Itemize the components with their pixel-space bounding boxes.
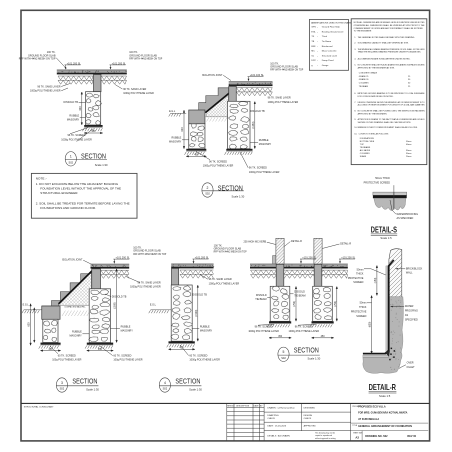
svg-text:1000g POLYTHENE LAYER: 1000g POLYTHENE LAYER (248, 330, 279, 333)
svg-text:OTHERWISE ALL DIMENSIONS SHALL: OTHERWISE ALL DIMENSIONS SHALL BE VERIFI… (354, 24, 426, 27)
svg-text:RUBBLE: RUBBLE (200, 325, 210, 328)
section 5 dims (295, 287, 297, 322)
section 3 compacted backfill text (59, 304, 90, 306)
section 1 bottom dimension (84, 132, 102, 134)
svg-text:(750): (750) (334, 301, 337, 307)
svg-text:FOR MRS. GUNASEKARA KOTHALAWAT: FOR MRS. GUNASEKARA KOTHALAWATA (358, 412, 407, 415)
svg-text:WALL: WALL (406, 272, 413, 275)
svg-text:GRADE 25: GRADE 25 (359, 75, 369, 78)
section 1 rubble masonry foundation (85, 92, 101, 125)
svg-text:THAN THE REQUIRED BEARING PRES: THAN THE REQUIRED BEARING PRESSURE UNDER… (358, 51, 422, 54)
svg-text:CHECK: CHECK (267, 418, 275, 420)
svg-text:Existing Ground Level: Existing Ground Level (322, 30, 344, 33)
section 2 right screed band (226, 149, 252, 152)
detail-r concrete speckles (390, 299, 401, 370)
svg-text:CONCRETE GRADE: CONCRETE GRADE (359, 71, 378, 74)
svg-text:1000g POLYTHENE LAYER: 1000g POLYTHENE LAYER (189, 359, 220, 362)
svg-text:APPROVED: APPROVED (304, 424, 317, 427)
svg-text:RFF: RFF (311, 46, 316, 48)
svg-text:96 TK. SCREED: 96 TK. SCREED (295, 326, 313, 329)
svg-text:1000g POLYTHENE LAYER: 1000g POLYTHENE LAYER (268, 101, 299, 104)
svg-text:TIE BEAM: TIE BEAM (359, 85, 368, 88)
svg-text:MC: MC (311, 51, 315, 53)
svg-text:RFF WITH 4#N2 MESH ON TOP: RFF WITH 4#N2 MESH ON TOP (19, 57, 56, 60)
section 3 fill hatch (62, 311, 90, 316)
title block frame (21, 402, 430, 404)
section 5 screed bands (269, 321, 291, 324)
svg-text:DETAIL-R: DETAIL-R (291, 240, 302, 243)
svg-text:DRAWING NO. S02: DRAWING NO. S02 (365, 435, 388, 438)
section 4 masonry (171, 285, 193, 341)
svg-text:THE GENERAL NOTES SHALL BE REA: THE GENERAL NOTES SHALL BE READ WITH THI… (358, 36, 416, 39)
svg-text:60 TK. SCREED: 60 TK. SCREED (189, 354, 207, 357)
svg-text:Tie Beam: Tie Beam (322, 41, 331, 43)
svg-text:30: 30 (408, 83, 410, 85)
svg-text:(750): (750) (293, 301, 296, 307)
svg-text:TIE BEAM: TIE BEAM (255, 298, 266, 301)
section 1 sand layer zigzag right (102, 76, 127, 84)
svg-text:RFF WITH 4#N2 MESH ON TOP: RFF WITH 4#N2 MESH ON TOP (129, 57, 162, 60)
svg-text:This Drawing may not be: This Drawing may not be (315, 432, 335, 435)
svg-text:S02: S02 (281, 356, 286, 360)
svg-text:STRUCTURAL CONSULTANT: STRUCTURAL CONSULTANT (24, 405, 54, 408)
section 1 title (65, 152, 108, 167)
svg-text:1. DO NOT EXCAVATE BELOW THE: 1. DO NOT EXCAVATE BELOW THE ADJACENT BU… (36, 182, 119, 186)
svg-text:100g POLYTHENE LAYER: 100g POLYTHENE LAYER (52, 359, 81, 362)
svg-text:96 TK. SCREED: 96 TK. SCREED (209, 160, 227, 163)
section 4 ground floor slab (171, 264, 214, 269)
svg-text:AS: AS (405, 314, 409, 317)
svg-text:TOP: TOP (360, 144, 365, 146)
svg-text:50mm: 50mm (360, 301, 367, 304)
svg-text:SCREED: SCREED (353, 281, 363, 284)
svg-text:A3: A3 (355, 435, 359, 439)
section 5 brick wall 2 (288, 238, 372, 264)
svg-text:(600): (600) (369, 322, 372, 328)
detail-r bottom screed strip (363, 355, 389, 357)
svg-text:MASONRY: MASONRY (121, 329, 134, 332)
section 5 level marks (300, 256, 317, 263)
svg-text:COLUMNS: COLUMNS (360, 153, 370, 155)
section 3 right soil hatch (85, 346, 113, 349)
section 2 steps (190, 88, 229, 113)
section 5 mc kerb (273, 256, 277, 264)
svg-text:SECTION: SECTION (175, 376, 200, 385)
detail-r concrete mass (363, 297, 404, 374)
svg-text:(1500): (1500) (114, 302, 117, 309)
section 3 hatch under steps (0, 273, 153, 305)
svg-text:RUBBLE: RUBBLE (259, 139, 269, 142)
svg-text:4: 4 (164, 381, 166, 385)
svg-text:50mm: 50mm (406, 141, 412, 143)
section 2 dpc diagonal (205, 92, 230, 113)
detail-s waterproofing band (373, 195, 407, 198)
section 3 wall column (92, 269, 101, 289)
section 5 sand layer zigzag (251, 270, 348, 278)
svg-text:SECTION: SECTION (218, 183, 243, 192)
svg-text:THICK: THICK (359, 306, 367, 309)
section 5 masonry 1 (270, 286, 290, 321)
svg-text:450: 450 (91, 130, 96, 133)
svg-text:S02: S02 (60, 387, 65, 391)
detail-r fillet (385, 351, 390, 357)
section 2 title (202, 183, 245, 199)
svg-text:1: 1 (70, 155, 72, 159)
project block (351, 406, 429, 441)
svg-text:600: 600 (28, 322, 31, 327)
svg-text:DRAFTING: DRAFTING (267, 414, 278, 417)
section 1 right level mark (110, 62, 127, 69)
svg-text:SPECIFIED: SPECIFIED (405, 318, 418, 321)
svg-text:1000g POLYTHENE LAYER: 1000g POLYTHENE LAYER (289, 330, 320, 333)
svg-text:RUBBLE: RUBBLE (121, 325, 131, 328)
svg-text:REV.NO: REV.NO (227, 406, 235, 408)
svg-text:(150): (150) (374, 277, 377, 283)
section 4 title (159, 376, 202, 392)
svg-text:Scale 1:30: Scale 1:30 (86, 388, 99, 392)
svg-text:THICK: THICK (356, 273, 364, 276)
section 4 level mark (193, 256, 210, 263)
svg-text:MASONRY: MASONRY (70, 335, 83, 338)
section 2 left soil hatch (185, 152, 205, 155)
svg-text:ISOLATION JOINT: ISOLATION JOINT (62, 259, 83, 262)
revision table (227, 403, 264, 440)
drawn block (264, 403, 351, 440)
section 3 ground floor slab (91, 264, 130, 269)
svg-text:BRICK/BLOCK: BRICK/BLOCK (406, 267, 423, 270)
svg-text:200 HIGH MC KERB: 200 HIGH MC KERB (243, 241, 266, 244)
svg-text:DATE : 15-03-2023: DATE : 15-03-2023 (267, 424, 286, 427)
section 3 level mark (113, 257, 130, 264)
svg-text:1000g POLYTHENE LAYER: 1000g POLYTHENE LAYER (209, 282, 240, 285)
section 5 brick wall 1 (250, 238, 334, 264)
detail-s concrete blob (374, 198, 406, 210)
svg-text:FILLET: FILLET (407, 366, 416, 369)
svg-text:Ground Floor Slab: Ground Floor Slab (322, 26, 341, 29)
svg-text:APPROVED BY THE ENGINEER AT SI: APPROVED BY THE ENGINEER AT SITE. (358, 66, 395, 69)
section 1 screed band (84, 125, 102, 128)
svg-text:PROTECTIVE: PROTECTIVE (351, 311, 367, 314)
svg-text:5: 5 (283, 350, 285, 354)
svg-text:S02: S02 (163, 387, 168, 391)
svg-text:UNLESS OTHERWISE SHOWN THE MIN: UNLESS OTHERWISE SHOWN THE MINIMUM LAP O… (358, 101, 425, 104)
svg-text:AT KURUNEGALA: AT KURUNEGALA (358, 418, 379, 421)
svg-text:COMMENCEMENT OF WORK AND ANY D: COMMENCEMENT OF WORK AND ANY DISCREPANCY… (354, 27, 424, 30)
svg-text:S02: S02 (68, 160, 73, 164)
section 2 left screed band (186, 149, 206, 152)
svg-text:RUBBLE: RUBBLE (172, 137, 182, 140)
detail-r waterproofing line (363, 260, 394, 354)
svg-text:25: 25 (408, 76, 410, 78)
svg-text:PROTECTIVE: PROTECTIVE (348, 277, 364, 280)
section 3 sand layer zigzag (101, 270, 129, 278)
svg-text:10.: 10. (354, 134, 357, 136)
svg-text:450: 450 (194, 154, 199, 157)
svg-text:WATERPROOFING: WATERPROOFING (397, 213, 419, 216)
section 2 right soil hatch (225, 152, 253, 155)
svg-text:NO CONCRETE SHALL BE PLACED AG: NO CONCRETE SHALL BE PLACED AGAINST EXCA… (358, 63, 426, 66)
section 3 left footing gray (42, 306, 60, 319)
svg-text:DISSOLD: DISSOLD (256, 294, 267, 297)
svg-text:GRADE 30: GRADE 30 (359, 78, 369, 81)
svg-text:2. SOIL SHALL BE TREATED FOR: 2. SOIL SHALL BE TREATED FOR TERMITE BEF… (36, 202, 130, 206)
section 4 screed band (169, 341, 195, 344)
section 5 soil hatches (267, 324, 290, 327)
svg-text:(1050): (1050) (252, 121, 255, 128)
section 2 ground floor slab (229, 81, 273, 86)
note box (31, 173, 137, 218)
svg-text:96 TK. SAND LAYER: 96 TK. SAND LAYER (268, 97, 291, 100)
svg-text:25: 25 (408, 86, 410, 88)
svg-text:1000g POLYTHENE LAYER: 1000g POLYTHENE LAYER (249, 171, 280, 174)
svg-text:BOTTOM / SIDE: BOTTOM / SIDE (360, 141, 375, 143)
svg-text:30mm: 30mm (406, 153, 412, 155)
svg-text:SECTION: SECTION (81, 152, 106, 161)
detail-r corner dots (389, 348, 395, 361)
section 3 right masonry (89, 289, 111, 343)
svg-text:DATE: DATE (254, 405, 260, 408)
section 5 masonry 2 (313, 286, 333, 321)
section 5 wall 1 column (276, 264, 284, 286)
svg-text:Scale 1:30: Scale 1:30 (95, 163, 108, 167)
section 4 wall column (172, 268, 179, 285)
svg-text:TIE BEAMS: TIE BEAMS (360, 146, 371, 149)
svg-text:450: 450 (98, 348, 103, 351)
section 2 sand layer zigzag (237, 88, 273, 96)
svg-text:60 TK. SCREED: 60 TK. SCREED (58, 354, 76, 357)
section 2 fill hatch (207, 118, 231, 122)
section 2 dims (183, 110, 185, 148)
detail-r protective screed strip (386, 266, 388, 354)
section 3 left soil hatch (39, 346, 59, 349)
svg-text:RUBBLE: RUBBLE (72, 331, 82, 334)
section 4 sand layer zigzag (180, 270, 213, 278)
section 1 vertical dimension (81, 92, 83, 125)
section 3 dpc diagonal (59, 269, 94, 304)
svg-text:DRAWN : sd Ramanandhan: DRAWN : sd Ramanandhan (267, 406, 295, 409)
svg-text:96 TK. SAND LAYER: 96 TK. SAND LAYER (209, 278, 232, 281)
svg-text:450: 450 (278, 335, 283, 338)
svg-text:ALL DIMENSIONS ARE IN MILLIMET: ALL DIMENSIONS ARE IN MILLIMETERS UNLESS… (358, 57, 411, 60)
detail-r brick wall (350, 248, 452, 298)
svg-text:NOTE ALL DIMENSIONS ARE IN MM: NOTE ALL DIMENSIONS ARE IN MM AND LEVELS… (354, 21, 425, 24)
svg-text:96 TK. SCREED: 96 TK. SCREED (255, 326, 273, 329)
svg-text:COVER TO STEEL AS FOLLOWS: COVER TO STEEL AS FOLLOWS (359, 133, 389, 136)
svg-text:30: 30 (408, 79, 410, 81)
svg-text:DPC: DPC (311, 60, 316, 62)
svg-text:Reinforced: Reinforced (322, 45, 333, 48)
section 5 wall 2 column (314, 264, 322, 286)
section 3 right screed band (87, 343, 113, 346)
svg-text:1000g POLYTHENE LAYER: 1000g POLYTHENE LAYER (61, 139, 92, 142)
svg-text:20mm: 20mm (406, 156, 412, 158)
svg-text:2: 2 (207, 186, 209, 190)
svg-text:Scale 1:30: Scale 1:30 (232, 195, 245, 199)
svg-text:100g POLYTHENE LAYER: 100g POLYTHENE LAYER (113, 359, 142, 362)
svg-text:60 TK. SCREED: 60 TK. SCREED (113, 354, 131, 357)
svg-text:S02: S02 (205, 192, 210, 196)
section 2 left footing gray (189, 110, 205, 124)
svg-text:SCREED: SCREED (356, 315, 366, 318)
svg-text:96 TK. SAND LAYER: 96 TK. SAND LAYER (37, 85, 60, 88)
svg-text:DESIGN: DESIGN (304, 415, 313, 417)
svg-text:SHEET SIZE: SHEET SIZE (353, 432, 362, 434)
svg-text:ALL LINKS OF REINFORCEMENT FOR: ALL LINKS OF REINFORCEMENT FOR LENGTH OF… (358, 104, 425, 107)
svg-text:E.G.L: E.G.L (23, 303, 30, 306)
section 4 soil hatch (167, 344, 195, 347)
svg-text:MASONRY: MASONRY (67, 118, 80, 121)
svg-text:APPROVED BY THE ENGINEER.: APPROVED BY THE ENGINEER. (358, 112, 388, 115)
detail-r dims (376, 266, 378, 296)
section 2 hatch under steps (162, 95, 271, 117)
svg-text:Mass Concrete: Mass Concrete (322, 50, 337, 53)
detail-s title (371, 225, 398, 240)
svg-text:PROOFING: PROOFING (405, 310, 418, 313)
svg-text:IMPROVED GROUND BEARING IS TO: IMPROVED GROUND BEARING IS TO BE SPECIFI… (358, 92, 426, 95)
svg-text:THE MINIMUM ALLOWABLE BEARING: THE MINIMUM ALLOWABLE BEARING PRESSURE O… (358, 48, 426, 51)
svg-text:DETAIL-R: DETAIL-R (340, 243, 351, 246)
svg-text:50mm: 50mm (357, 268, 364, 271)
section 3 title (56, 376, 99, 392)
svg-text:DISSOLD TB: DISSOLD TB (112, 295, 127, 298)
svg-text:(1500): (1500) (195, 309, 198, 316)
svg-text:NO CONCRETE SHALL BE POURED UN: NO CONCRETE SHALL BE POURED UNTIL THE IN… (358, 109, 426, 112)
svg-text:TO THE ENGINEER: TO THE ENGINEER (354, 31, 372, 33)
svg-text:96 TK. SCREED: 96 TK. SCREED (249, 167, 267, 170)
svg-text:AS SPECIFIED: AS SPECIFIED (397, 217, 414, 220)
section 1 wall column (94, 75, 102, 92)
svg-text:FOUNDATION LEVEL WITHOUT THE A: FOUNDATION LEVEL WITHOUT THE APPROVAL OF… (40, 186, 121, 190)
svg-text:COLUMNS: COLUMNS (359, 83, 369, 85)
section 2 wall column (229, 86, 237, 101)
general notes box (351, 19, 427, 165)
detail-s center joint line (393, 192, 395, 209)
svg-text:96 TK. SAND LAYER: 96 TK. SAND LAYER (138, 281, 161, 284)
svg-text:RFF WITH 4#N2 MESH ON TOP: RFF WITH 4#N2 MESH ON TOP (270, 69, 303, 72)
svg-text:WATER: WATER (405, 305, 414, 308)
svg-text:GFS: GFS (311, 27, 316, 29)
svg-text:OVER: OVER (407, 361, 414, 364)
svg-text:REV 00: REV 00 (407, 435, 416, 438)
svg-text:Thick: Thick (322, 36, 328, 38)
svg-text:ABBREVIATIONS USED IN THIS DRA: ABBREVIATIONS USED IN THIS DRAWING (311, 21, 354, 24)
svg-text:EGL: EGL (311, 31, 316, 33)
section 1 soil hatch (82, 128, 102, 131)
svg-text:DESIGNED: DESIGNED (304, 407, 316, 409)
svg-text:GENERAL ARRANGEMENT OF FOUNDAT: GENERAL ARRANGEMENT OF FOUNDATION (358, 425, 412, 428)
detail-s protective screed band (373, 192, 407, 195)
svg-text:STRUCTURAL ENGINEER.: STRUCTURAL ENGINEER. (40, 191, 78, 195)
svg-text:ISOLATION JOINT: ISOLATION JOINT (202, 74, 223, 77)
svg-text:Scale 1:30: Scale 1:30 (308, 357, 321, 361)
svg-text:DISSOLD TB: DISSOLD TB (192, 293, 207, 296)
section 2 left masonry (189, 124, 205, 149)
svg-text:E.G.L: E.G.L (169, 110, 176, 113)
svg-text:SOIL BEARING CAPACITY SHALL BE: SOIL BEARING CAPACITY SHALL BE VERIFIED … (358, 42, 409, 45)
svg-text:ATTENTION IS DRAWN TO THE FACT: ATTENTION IS DRAWN TO THE FACT THAT ALL … (358, 118, 426, 121)
svg-text:FOR CONSOLIDATION BELOW NOTED.: FOR CONSOLIDATION BELOW NOTED. (358, 95, 394, 98)
svg-text:COMPACTED BACKFILL: COMPACTED BACKFILL (64, 305, 85, 308)
svg-text:Scale 1:30: Scale 1:30 (189, 388, 202, 392)
svg-text:without approval in writing: without approval in writing (315, 437, 336, 440)
svg-text:CHECK: CHECK (304, 418, 312, 420)
detail-r title (369, 383, 397, 398)
svg-text:600: 600 (79, 106, 82, 111)
svg-text:PROTECTIVE SCREED: PROTECTIVE SCREED (364, 181, 391, 184)
section 5 ground floor slab (250, 264, 348, 269)
svg-text:RUBBLE: RUBBLE (69, 114, 79, 117)
svg-text:600: 600 (181, 127, 184, 132)
svg-text:Structural Level: Structural Level (322, 54, 338, 57)
svg-text:450: 450 (321, 335, 326, 338)
svg-text:SHOWN ON THIS DRAWING SHALL BE: SHOWN ON THIS DRAWING SHALL BE CHECKED A… (358, 121, 412, 124)
section 5 title (278, 345, 321, 361)
svg-text:MASONRY: MASONRY (169, 141, 182, 144)
svg-text:DETAIL-S: DETAIL-S (371, 225, 398, 234)
svg-text:40mm: 40mm (406, 144, 412, 146)
section 2 level mark (248, 74, 265, 81)
svg-text:ALL FACES: ALL FACES (360, 149, 371, 152)
svg-text:DESCRIPTION: DESCRIPTION (236, 406, 250, 408)
svg-text:SLABS: SLABS (360, 155, 367, 158)
svg-text:Scale 1:5: Scale 1:5 (380, 236, 392, 240)
svg-text:DETAIL-R: DETAIL-R (369, 383, 396, 392)
svg-text:RFF WITH 4#N2 MESH ON TOP: RFF WITH 4#N2 MESH ON TOP (214, 251, 247, 254)
svg-text:1000g POLYTHENE LAYER: 1000g POLYTHENE LAYER (30, 90, 61, 93)
svg-text:MASONRY: MASONRY (259, 143, 272, 146)
svg-text:FOUNDATIONS AND GROUND FLOOR.: FOUNDATIONS AND GROUND FLOOR. (40, 206, 96, 210)
svg-text:30mm: 30mm (406, 150, 412, 152)
svg-text:Damp Proof: Damp Proof (322, 59, 334, 62)
section 2 right masonry (228, 101, 251, 149)
svg-text:NOTE :-: NOTE :- (36, 177, 47, 181)
svg-text:1000g POLYTHENE LAYER: 1000g POLYTHENE LAYER (203, 165, 234, 168)
section 3 left screed band (41, 343, 61, 346)
svg-text:FOUNDATIONS: FOUNDATIONS (360, 137, 375, 140)
svg-text:3: 3 (61, 381, 63, 385)
section 3 steps (42, 271, 92, 306)
svg-text:Gauge: Gauge (322, 65, 329, 67)
section 3 left masonry (43, 319, 58, 342)
section 1 left level mark (65, 62, 82, 69)
svg-text:DISSOLD TB: DISSOLD TB (250, 110, 265, 113)
svg-text:PROPOSED ECO VILLA: PROPOSED ECO VILLA (358, 406, 386, 409)
section 4 dims (197, 285, 199, 341)
svg-text:DETAILS : AS DRAWN: DETAILS : AS DRAWN (267, 435, 290, 438)
svg-text:MINIMUM COVER TO REINFORCEMENT: MINIMUM COVER TO REINFORCEMENT SHALL BE … (358, 126, 418, 129)
svg-text:SECTION: SECTION (72, 376, 97, 385)
svg-text:96 TK. SAND LAYER: 96 TK. SAND LAYER (123, 88, 146, 91)
svg-text:Scale 1:5: Scale 1:5 (379, 394, 391, 398)
section 1 ground floor slab (57, 70, 127, 75)
svg-text:MASONRY: MASONRY (200, 329, 213, 332)
abbreviation table (309, 20, 354, 71)
svg-text:E.G.L: E.G.L (150, 303, 157, 306)
section 3 dims (30, 304, 32, 345)
svg-text:DISSOLD TB: DISSOLD TB (64, 101, 79, 104)
svg-text:RFF WITH 4#N2 MESH ON TOP: RFF WITH 4#N2 MESH ON TOP (133, 253, 166, 256)
svg-text:1000g POLYTHENE LAYER: 1000g POLYTHENE LAYER (130, 286, 161, 289)
svg-text:50mm THICK: 50mm THICK (375, 177, 390, 180)
svg-text:1000g POLYTHENE LAYER: 1000g POLYTHENE LAYER (123, 92, 154, 95)
svg-text:SECTION: SECTION (294, 345, 319, 354)
section 1 sand layer zigzag left (58, 76, 93, 84)
